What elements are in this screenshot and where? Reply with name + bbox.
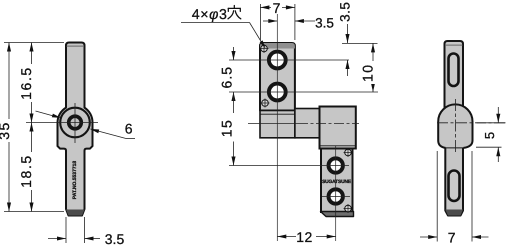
dim 15 lower segment <box>233 142 235 166</box>
right dome fill <box>438 104 472 148</box>
dim 7 arrows <box>260 5 269 9</box>
pin ring <box>69 116 82 129</box>
dome bottom bend line <box>446 147 464 149</box>
dim 7 line <box>260 6 295 8</box>
lower hole 4 <box>329 189 343 203</box>
upper leaf skirt <box>260 111 295 138</box>
dim 3.5 left dim line tails <box>48 238 66 240</box>
svg-text:4×φ3: 4×φ3 <box>192 7 228 23</box>
dim 3.5 left arrow R <box>85 236 94 240</box>
hole2 centerline <box>229 91 378 93</box>
svg-text:12: 12 <box>296 229 313 245</box>
right view horizontal centerline <box>437 122 506 124</box>
lower slot <box>449 171 460 202</box>
dim 35 top arrow <box>7 43 11 52</box>
upper leaf vertical centerline <box>276 13 278 241</box>
dim 35 text <box>0 119 15 142</box>
skirt bend line <box>260 113 295 115</box>
dim 3.5v line lower with up arrow <box>347 60 349 76</box>
dim 12 arrows <box>277 234 286 238</box>
leader 6 tail <box>126 138 135 140</box>
dim 12 line <box>277 236 296 238</box>
dim 18.5 top arrow <box>29 123 33 132</box>
lower hole 3 <box>329 158 343 172</box>
lower leaf vertical centerline <box>335 146 337 241</box>
dim 10 top ext line <box>342 42 378 44</box>
label leader underline <box>181 22 250 24</box>
svg-text:18.5: 18.5 <box>18 154 34 188</box>
dim 10 arrows <box>371 43 375 52</box>
right bar bottom bevel <box>445 210 463 216</box>
hole3 centerline <box>229 165 349 167</box>
leader 6 segment B <box>91 129 127 139</box>
left bar bottom bevel <box>66 210 85 216</box>
dim 35 bottom arrow <box>7 203 11 212</box>
svg-text:3.5: 3.5 <box>105 231 125 247</box>
small pin circle bottom-left <box>261 99 270 108</box>
dim 6.5 upper segment <box>233 47 235 60</box>
dim 5 ext line upper (solid over centerline) <box>477 122 506 124</box>
lower leaf plate <box>321 149 353 213</box>
small pin circle top-left <box>260 44 269 53</box>
leader 6 arrow B <box>90 129 99 133</box>
lower block bend line <box>320 145 356 147</box>
label leader diagonal <box>250 23 264 46</box>
dim 18.5 text <box>18 152 38 190</box>
svg-text:7: 7 <box>273 0 281 16</box>
svg-text:6: 6 <box>125 121 133 137</box>
knuckle outer circle <box>60 108 90 138</box>
top extension line left view <box>4 42 64 44</box>
left leaf bar silhouette <box>58 43 93 216</box>
dim 18.5 line <box>31 123 33 212</box>
svg-text:5: 5 <box>482 132 497 139</box>
left bar top bevel <box>67 45 84 47</box>
upper slot <box>449 54 459 87</box>
label leader arrowhead <box>260 40 266 48</box>
svg-text:15: 15 <box>219 119 235 137</box>
small pin circle lower leaf bottom-right <box>344 204 353 213</box>
dim 7 text <box>271 0 282 16</box>
dim 3.5 left arrow L <box>57 236 66 240</box>
dim 3.5h arrows and lines <box>263 20 277 22</box>
dim 7 ext lines <box>259 4 261 40</box>
pin axis centerline <box>248 123 298 125</box>
dim 10 line <box>372 43 374 92</box>
dim 16.5 line <box>31 43 33 123</box>
svg-text:3.5: 3.5 <box>315 16 334 31</box>
dim 5 lower segment <box>497 147 499 162</box>
right view vertical centerline <box>454 99 456 153</box>
dim 7b ext lines <box>436 151 438 242</box>
upper hole 1 <box>269 52 286 69</box>
svg-text:7: 7 <box>448 230 456 246</box>
svg-text:SUGATSUNE: SUGATSUNE <box>322 179 352 185</box>
dim 6.5 lower arrow (shared with 15) <box>231 92 235 101</box>
dim 18.5 bottom arrow <box>29 203 33 212</box>
right bar top bevel <box>445 44 462 46</box>
svg-text:16.5: 16.5 <box>18 66 34 100</box>
svg-text:3.5: 3.5 <box>338 2 353 22</box>
knuckle vertical centerline <box>74 103 76 143</box>
svg-text:35: 35 <box>0 121 12 139</box>
upper leaf top bevel <box>260 43 295 49</box>
label kanji ana (hole) drawn as strokes <box>228 6 241 19</box>
dim 7b arrows <box>428 235 437 239</box>
dim 10 text <box>360 61 379 84</box>
upper hole 2 <box>269 84 286 101</box>
svg-text:6.5: 6.5 <box>219 66 235 88</box>
svg-text:PAT.NO.5537718: PAT.NO.5537718 <box>72 161 78 200</box>
bottom extension line left view <box>4 211 64 213</box>
right upper bar <box>445 41 464 118</box>
dim 5 ext line lower <box>476 146 502 148</box>
leader 6 arrow A <box>52 114 61 118</box>
knuckle horizontal centerline <box>26 122 98 124</box>
knuckle barrel front <box>295 109 320 138</box>
upper leaf plate <box>260 43 295 111</box>
dim 16.5 bottom arrow <box>29 114 33 123</box>
svg-text:10: 10 <box>360 64 376 82</box>
hole1 centerline <box>229 59 349 61</box>
dim 7b tails <box>420 236 437 238</box>
small pin circle lower leaf top-right <box>344 148 353 157</box>
hole4 centerline <box>322 196 350 198</box>
dim 16.5 text <box>18 64 38 102</box>
dim 3.5 left ext lines <box>65 217 67 243</box>
right dome outline <box>438 104 472 148</box>
leader 6 segment A <box>36 111 55 116</box>
dim 3.5v line upper with down arrow <box>347 24 349 43</box>
dim 5 upper segment <box>497 107 499 123</box>
lower leaf bottom lip <box>321 212 354 217</box>
right lower bar <box>445 140 463 216</box>
dim 35 line <box>8 43 10 212</box>
lower block top section <box>320 107 356 149</box>
dim 16.5 top arrow <box>29 43 33 52</box>
